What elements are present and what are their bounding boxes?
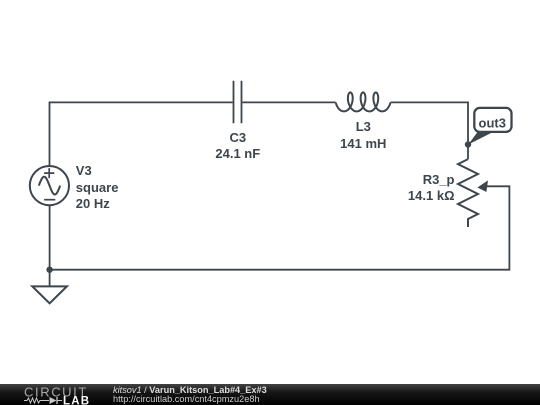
svg-text:LAB: LAB	[63, 396, 90, 405]
svg-text:out3: out3	[479, 115, 506, 130]
